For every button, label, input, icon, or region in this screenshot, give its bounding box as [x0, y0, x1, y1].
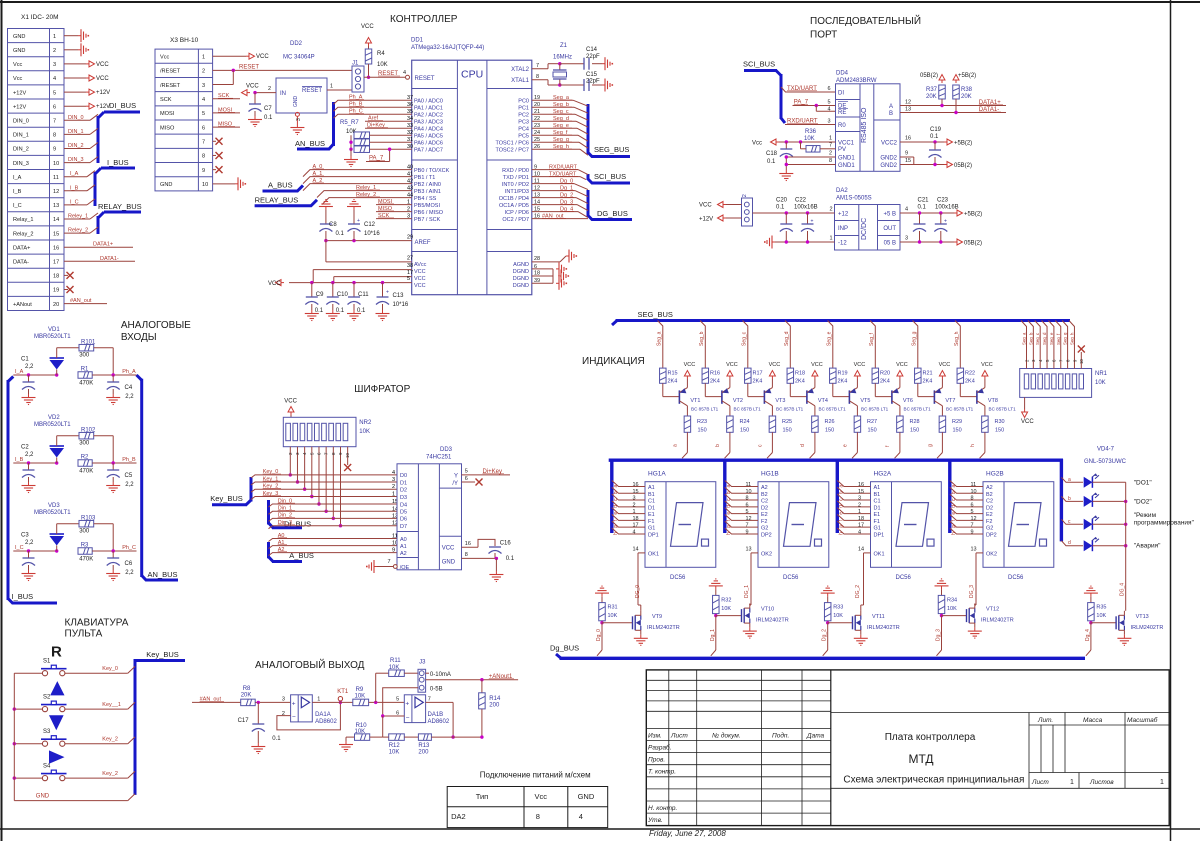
wire /OE pin7 to ground — [366, 559, 397, 573]
wire Dg_0 at CPU — [532, 179, 588, 190]
svg-text:3: 3 — [905, 236, 908, 242]
svg-text:+5В(2): +5В(2) — [964, 212, 982, 218]
svg-text:PC2: PC2 — [518, 113, 529, 119]
wire gate Dg_1 from DG bus — [710, 616, 716, 656]
wire HG2A OK1 pin 14 — [858, 547, 871, 606]
wire #AN_out at X1 — [64, 298, 107, 304]
X3 pin9 no connect — [213, 166, 223, 173]
svg-text:D2: D2 — [761, 505, 768, 511]
LED block VD4-7 GNL-5073UWC — [1084, 447, 1127, 466]
svg-text:15: 15 — [905, 158, 911, 164]
wire switch S1 left — [14, 672, 42, 674]
svg-text:2,2: 2,2 — [25, 452, 34, 458]
resistor R10 10K — [339, 723, 383, 752]
svg-text:Key__1: Key__1 — [102, 702, 121, 708]
svg-text:D1: D1 — [400, 480, 407, 486]
svg-text:Dg_3: Dg_3 — [936, 629, 942, 641]
svg-text:2K4: 2K4 — [838, 379, 848, 385]
svg-text:16: 16 — [858, 482, 864, 488]
svg-text:OK2: OK2 — [986, 552, 997, 558]
svg-text:VD4-7: VD4-7 — [1097, 447, 1115, 453]
svg-text:"Авария": "Авария" — [1134, 543, 1161, 550]
switch S2 — [41, 695, 67, 712]
svg-text:R4: R4 — [377, 51, 385, 57]
svg-text:C13: C13 — [393, 293, 405, 299]
svg-text:Ph_C: Ph_C — [122, 545, 136, 551]
wire VCC to J2 — [699, 202, 742, 209]
svg-text:Утв.: Утв. — [647, 817, 663, 824]
svg-text:Key_BUS: Key_BUS — [210, 494, 243, 503]
svg-text:MOSI: MOSI — [378, 199, 393, 205]
wire Ph_C to AN_BUS — [122, 545, 136, 551]
svg-text:HG2A: HG2A — [874, 471, 892, 478]
svg-text:Seg_g: Seg_g — [1063, 332, 1068, 345]
svg-text:DD3: DD3 — [440, 447, 453, 453]
svg-text:26: 26 — [534, 144, 540, 150]
svg-text:0.1: 0.1 — [930, 134, 939, 140]
wire +5B out pin4 — [900, 207, 982, 218]
svg-text:150: 150 — [868, 428, 877, 434]
resistor R18 2K4 — [787, 368, 805, 397]
svg-text:A_0: A_0 — [313, 164, 323, 170]
wire NR2 pin4 — [302, 447, 307, 491]
IC DD4 ADM2483BRW — [836, 71, 901, 172]
svg-text:3: 3 — [53, 62, 56, 68]
svg-text:DI: DI — [838, 91, 844, 97]
svg-text:DGND: DGND — [513, 269, 529, 275]
svg-text:RESET: RESET — [302, 88, 322, 94]
wire Key_0 to DD3 — [251, 469, 397, 478]
svg-text:PA_7: PA_7 — [369, 156, 384, 162]
transistor VT1 BC857B — [663, 362, 719, 412]
svg-text:R22: R22 — [965, 371, 975, 377]
wire DIN_0 — [64, 114, 98, 121]
bus SEG_BUS stub at CPU — [588, 104, 630, 157]
svg-text:e: e — [613, 512, 619, 515]
svg-text:C18: C18 — [766, 151, 778, 157]
wire Ph_A — [334, 95, 414, 105]
svg-text:Seg_a: Seg_a — [1022, 332, 1027, 345]
wire Seg_d at CPU — [532, 116, 588, 127]
wire PA_7 to DD4 DE RE — [793, 100, 836, 113]
wire DATA1- from DD4 B pin13 — [900, 107, 1006, 115]
svg-text:150: 150 — [995, 428, 1004, 434]
resistor R30 150 — [982, 406, 1005, 434]
svg-text:Key_0: Key_0 — [263, 469, 279, 475]
svg-text:I_BUS: I_BUS — [107, 158, 129, 167]
svg-text:D5: D5 — [400, 510, 407, 516]
svg-text:PA5 / ADC5: PA5 / ADC5 — [414, 134, 443, 140]
svg-text:ATMega32-16AJ(TQFP-44): ATMega32-16AJ(TQFP-44) — [411, 45, 484, 51]
svg-text:Di+Key: Di+Key — [367, 123, 385, 129]
svg-text:7: 7 — [536, 63, 539, 69]
IC DD3 74HC251 — [397, 447, 462, 571]
svg-text:150: 150 — [740, 428, 749, 434]
svg-text:1: 1 — [317, 697, 320, 703]
wire gate Dg_0 from DG bus — [596, 623, 602, 656]
wire HG2A segment e pin 1 — [837, 508, 870, 516]
svg-text:05В(2): 05В(2) — [964, 241, 982, 247]
svg-text:"DO1": "DO1" — [1134, 479, 1153, 486]
label Режим программирования — [1134, 512, 1195, 527]
svg-text:b: b — [839, 491, 845, 494]
svg-text:E1: E1 — [874, 512, 881, 518]
svg-text:DC56: DC56 — [1008, 575, 1024, 581]
svg-text:7: 7 — [971, 523, 974, 529]
svg-text:10*16: 10*16 — [393, 302, 409, 308]
svg-text:Seg_c: Seg_c — [742, 331, 748, 346]
bus DI_BUS at encoder — [269, 500, 312, 529]
svg-text:R16: R16 — [710, 371, 720, 377]
svg-text:VT5: VT5 — [860, 398, 870, 404]
svg-text:PC4: PC4 — [518, 127, 529, 133]
connector X3 BH-10 — [155, 37, 213, 191]
svg-text:Ph_A: Ph_A — [349, 95, 363, 101]
svg-text:DD1: DD1 — [411, 38, 424, 44]
bus DI_BUS at X1 — [98, 101, 140, 163]
wire MOSI at CPU — [376, 199, 412, 206]
bus SEG_BUS horizontal — [612, 310, 1070, 325]
svg-text:DC56: DC56 — [783, 575, 799, 581]
svg-text:C7: C7 — [264, 106, 272, 112]
svg-text:8: 8 — [536, 74, 539, 80]
svg-text:A_2: A_2 — [313, 178, 323, 184]
wire DD2 GND pin3 — [290, 112, 304, 134]
wire HG2A segment a pin 16 — [837, 481, 870, 489]
svg-text:d: d — [1068, 540, 1071, 546]
wire DA1B output to feedback — [426, 702, 455, 738]
svg-text:Seg_f: Seg_f — [1056, 333, 1061, 345]
wire Seg_f branch — [869, 321, 875, 369]
label 0-5B — [383, 687, 443, 717]
X1 pin19 no connect — [64, 286, 74, 293]
date Friday, June 27, 2008 — [649, 829, 726, 838]
capacitor C23 100x16B — [934, 198, 958, 243]
capacitor C7 0.1 — [248, 93, 273, 127]
svg-text:10K: 10K — [1095, 380, 1106, 386]
svg-text:14: 14 — [534, 200, 540, 206]
svg-text:E2: E2 — [761, 512, 768, 518]
wire A0 to DD3 — [269, 533, 398, 542]
svg-text:R38: R38 — [961, 87, 973, 93]
svg-text:10K: 10K — [377, 62, 388, 68]
wire Di+Key at CPU — [365, 123, 413, 130]
svg-text:A1: A1 — [400, 544, 407, 550]
svg-text:Seg_f: Seg_f — [553, 130, 568, 136]
svg-text:29: 29 — [407, 235, 413, 241]
svg-text:VCC: VCC — [414, 269, 426, 275]
svg-text:ADM2483BRW: ADM2483BRW — [836, 78, 877, 84]
svg-text:GNL-5073UWC: GNL-5073UWC — [1084, 459, 1127, 465]
svg-text:4: 4 — [403, 70, 406, 76]
wire VCC2 pin16 to +5B(2) — [900, 136, 972, 147]
svg-text:Ph_A: Ph_A — [122, 369, 136, 375]
svg-text:+5В(2): +5В(2) — [954, 141, 972, 147]
svg-text:05В(2): 05В(2) — [954, 163, 972, 169]
svg-text:DP1: DP1 — [648, 532, 659, 538]
svg-text:5: 5 — [746, 509, 749, 515]
bus Key_BUS at keyboard — [135, 650, 185, 795]
svg-text:DATA1+: DATA1+ — [979, 100, 1001, 106]
capacitor C16 0.1 — [462, 539, 515, 562]
svg-text:GND: GND — [578, 792, 595, 801]
svg-text:VCC: VCC — [769, 362, 781, 368]
svg-text:C20: C20 — [776, 198, 788, 204]
svg-text:Плата контроллера: Плата контроллера — [885, 732, 976, 743]
svg-text:MOSI: MOSI — [160, 111, 175, 117]
resistor R101 300 — [57, 340, 113, 376]
svg-text:d: d — [613, 505, 619, 508]
svg-text:PA7 / ADC7: PA7 / ADC7 — [414, 148, 443, 154]
svg-text:Vcc: Vcc — [535, 792, 548, 801]
svg-text:Seg_f: Seg_f — [869, 332, 875, 346]
diode VD2 MBR0520LT1 — [34, 415, 71, 463]
wire I_B — [64, 185, 95, 192]
svg-text:C12: C12 — [364, 222, 376, 228]
svg-text:2: 2 — [633, 502, 636, 508]
capacitor C8 0.1 — [319, 200, 345, 241]
resistor R23 150 — [684, 406, 707, 434]
svg-text:C10: C10 — [337, 292, 349, 298]
svg-text:150: 150 — [953, 428, 962, 434]
svg-text:GND: GND — [36, 794, 50, 800]
wire Seg_e at CPU — [532, 123, 588, 134]
svg-text:8: 8 — [746, 496, 749, 502]
svg-text:Din_2: Din_2 — [278, 513, 292, 519]
svg-text:a: a — [839, 485, 845, 488]
svg-text:HG2B: HG2B — [986, 471, 1004, 478]
svg-text:6: 6 — [828, 86, 831, 92]
svg-text:VT10: VT10 — [761, 607, 774, 613]
svg-text:IRLM2402TR: IRLM2402TR — [981, 618, 1014, 624]
svg-text:g: g — [951, 525, 957, 528]
svg-text:Seg_d: Seg_d — [553, 116, 569, 122]
svg-text:R17: R17 — [753, 371, 763, 377]
wire NR2 pin7 — [324, 447, 329, 513]
resistor R3 470K — [78, 543, 137, 563]
svg-text:TXD/UART: TXD/UART — [787, 86, 817, 92]
bus I_BUS vertical — [8, 377, 57, 604]
op-amp DA1A AD8602 — [282, 695, 338, 725]
svg-text:D1: D1 — [874, 505, 881, 511]
svg-text:MBR0520LT1: MBR0520LT1 — [34, 510, 71, 516]
svg-text:8: 8 — [971, 496, 974, 502]
svg-text:VCC: VCC — [268, 281, 281, 287]
svg-text:b: b — [951, 491, 957, 494]
svg-text:10K: 10K — [833, 613, 843, 619]
svg-text:7: 7 — [428, 697, 431, 703]
bus AN_BUS vertical — [137, 375, 179, 580]
svg-text:Aref: Aref — [368, 116, 379, 122]
svg-text:e: e — [843, 444, 849, 447]
svg-text:АНАЛОГОВЫЕ: АНАЛОГОВЫЕ — [121, 320, 191, 331]
svg-text:7: 7 — [53, 119, 56, 125]
bus RELAY_BUS at CPU — [255, 196, 317, 206]
LED VD4 — [1061, 474, 1152, 488]
wire A1 to DD3 — [269, 540, 399, 549]
svg-text:программирования": программирования" — [1134, 520, 1195, 527]
svg-text:32: 32 — [407, 130, 413, 136]
resistor R19 2K4 — [830, 368, 848, 397]
svg-text:XTAL2: XTAL2 — [511, 67, 530, 73]
svg-text:VCC: VCC — [811, 362, 823, 368]
svg-text:GND: GND — [160, 182, 172, 188]
svg-text:+ANout: +ANout — [13, 302, 32, 308]
wire Seg_d to NR1 — [1042, 321, 1050, 369]
svg-text:43: 43 — [407, 186, 413, 192]
svg-text:OK1: OK1 — [648, 552, 659, 558]
svg-text:S4: S4 — [43, 764, 51, 770]
wire Seg_h to NR1 — [1069, 321, 1077, 369]
wire Seg_c to NR1 — [1035, 321, 1043, 369]
capacitor C5 2.2 — [106, 463, 134, 493]
wire gate Dg_2 from DG bus — [822, 623, 828, 656]
svg-text:PB0 / TO/XCK: PB0 / TO/XCK — [414, 168, 450, 174]
svg-text:C23: C23 — [937, 198, 949, 204]
svg-text:4: 4 — [633, 529, 636, 535]
wire HG2B OK2 pin 13 — [971, 547, 984, 606]
svg-text:2K4: 2K4 — [965, 379, 975, 385]
svg-text:10: 10 — [971, 489, 977, 495]
wire HG1A segment g pin 17 — [612, 521, 645, 529]
svg-text:A_1: A_1 — [313, 171, 323, 177]
wire Vcc to DD4 VCC1 pin1 — [752, 136, 836, 147]
svg-text:VT8: VT8 — [988, 398, 998, 404]
svg-text:B2: B2 — [986, 492, 993, 498]
wire drain DG_4 — [1125, 608, 1127, 611]
svg-text:R8: R8 — [243, 686, 251, 692]
svg-text:ШИФРАТОР: ШИФРАТОР — [354, 384, 410, 395]
svg-text:Din_0: Din_0 — [278, 498, 292, 504]
svg-text:9: 9 — [392, 548, 395, 554]
svg-text:R5_R7: R5_R7 — [340, 120, 359, 126]
diode VD3 MBR0520LT1 — [34, 503, 71, 551]
svg-text:I_A: I_A — [70, 171, 79, 177]
section title КЛАВИАТУРА ПУЛЬТА — [65, 618, 129, 640]
X3 pin7 no connect — [213, 138, 223, 145]
svg-text:PB2 / AIN0: PB2 / AIN0 — [414, 182, 441, 188]
wire HG1A segment a pin 16 — [612, 481, 645, 489]
svg-text:Relay_1: Relay_1 — [13, 217, 34, 223]
svg-text:C11: C11 — [358, 292, 369, 298]
svg-text:C4: C4 — [125, 385, 133, 391]
wire Di+Key output Y pin5 — [462, 469, 511, 475]
wire NR2 pin3 — [295, 447, 300, 484]
svg-text:R32: R32 — [721, 597, 731, 603]
svg-text:IRLM2402TR: IRLM2402TR — [756, 618, 789, 624]
wire Dg_4 at CPU — [532, 207, 588, 218]
wire Key_2 to Key_BUS — [65, 737, 135, 744]
svg-text:F2: F2 — [986, 519, 992, 525]
resistor R14 200 — [479, 680, 501, 739]
svg-text:5: 5 — [202, 111, 205, 117]
svg-text:S3: S3 — [43, 729, 51, 735]
svg-text:0.1: 0.1 — [272, 736, 281, 742]
wire DIN_1 — [64, 128, 98, 135]
svg-text:h: h — [613, 532, 619, 535]
svg-text:DG_2: DG_2 — [855, 585, 861, 598]
svg-text:#AN_out: #AN_out — [70, 298, 92, 304]
wire I_A — [64, 171, 95, 178]
svg-text:Di+Key: Di+Key — [483, 469, 503, 475]
svg-text:Схема электрическая принципиал: Схема электрическая принципиальная — [843, 775, 1024, 786]
svg-text:39: 39 — [534, 278, 540, 284]
svg-text:2K4: 2K4 — [668, 379, 678, 385]
resistor R21 2K4 — [915, 368, 933, 397]
svg-text:0-10mA: 0-10mA — [430, 672, 451, 678]
svg-text:CPU: CPU — [461, 69, 483, 81]
X1 pin5 +12V — [64, 89, 110, 96]
svg-text:4: 4 — [392, 470, 395, 476]
svg-text:PB5/MOSI: PB5/MOSI — [414, 203, 440, 209]
wire RESET to CPU pin4 — [364, 70, 410, 79]
bus RELAY_BUS at X1 — [98, 202, 142, 234]
wire Seg_e to NR1 — [1048, 321, 1056, 369]
svg-text:C5: C5 — [125, 473, 133, 479]
svg-text:IRLM2402TR: IRLM2402TR — [867, 625, 900, 631]
svg-text:I_C: I_C — [13, 203, 22, 209]
svg-text:PB3 / AIN1: PB3 / AIN1 — [414, 189, 441, 195]
wire segment h to display bus — [970, 432, 985, 458]
svg-text:C1: C1 — [21, 357, 29, 363]
svg-text:R11: R11 — [390, 658, 401, 664]
svg-text:+: + — [357, 218, 360, 224]
icon arrow up — [50, 681, 64, 695]
svg-text:G1: G1 — [648, 526, 655, 532]
svg-text:0.1: 0.1 — [315, 308, 324, 314]
svg-text:MBR0520LT1: MBR0520LT1 — [34, 422, 71, 428]
svg-text:B1: B1 — [874, 492, 881, 498]
wire Dg_3 at CPU — [532, 200, 588, 211]
wire A_0 — [303, 164, 413, 177]
svg-text:G1: G1 — [874, 526, 881, 532]
svg-text:Dg_1: Dg_1 — [560, 186, 573, 192]
svg-text:0.1: 0.1 — [264, 115, 273, 121]
svg-text:Key_1: Key_1 — [263, 476, 279, 482]
svg-text:SCI_BUS: SCI_BUS — [594, 172, 626, 181]
svg-text:SCK: SCK — [160, 97, 172, 103]
svg-text:a: a — [951, 485, 957, 488]
svg-text:D6: D6 — [400, 517, 407, 523]
wire switch S3 left — [13, 742, 43, 745]
svg-text:C15: C15 — [586, 72, 598, 78]
svg-text:d: d — [839, 505, 845, 508]
svg-text:DG_0: DG_0 — [635, 585, 641, 598]
svg-text:4: 4 — [579, 812, 583, 821]
svg-text:+12: +12 — [838, 212, 849, 218]
svg-text:S2: S2 — [43, 695, 51, 701]
wire A2 to DD3 — [269, 547, 398, 556]
svg-text:VCC: VCC — [981, 362, 993, 368]
wire HG1A segment f pin 18 — [612, 514, 645, 522]
svg-text:Seg_h: Seg_h — [954, 331, 960, 346]
svg-text:Relay_2: Relay_2 — [13, 231, 34, 237]
svg-text:SCK: SCK — [378, 213, 390, 219]
svg-text:Key_3: Key_3 — [263, 491, 279, 497]
svg-text:5: 5 — [465, 469, 468, 475]
svg-text:ПОРТ: ПОРТ — [810, 30, 837, 41]
svg-text:TOSC2 / PC7: TOSC2 / PC7 — [495, 148, 529, 154]
svg-text:150: 150 — [825, 428, 834, 434]
capacitor C12 10*16 — [347, 200, 380, 241]
transistor VT13 IRLM2402TR — [1091, 611, 1163, 646]
wire switch S2 left — [13, 707, 43, 710]
svg-text:D0: D0 — [400, 473, 407, 479]
svg-text:200: 200 — [489, 703, 500, 709]
svg-text:/OE: /OE — [400, 565, 410, 571]
svg-text:20K: 20K — [926, 94, 937, 100]
svg-text:15: 15 — [534, 207, 540, 213]
